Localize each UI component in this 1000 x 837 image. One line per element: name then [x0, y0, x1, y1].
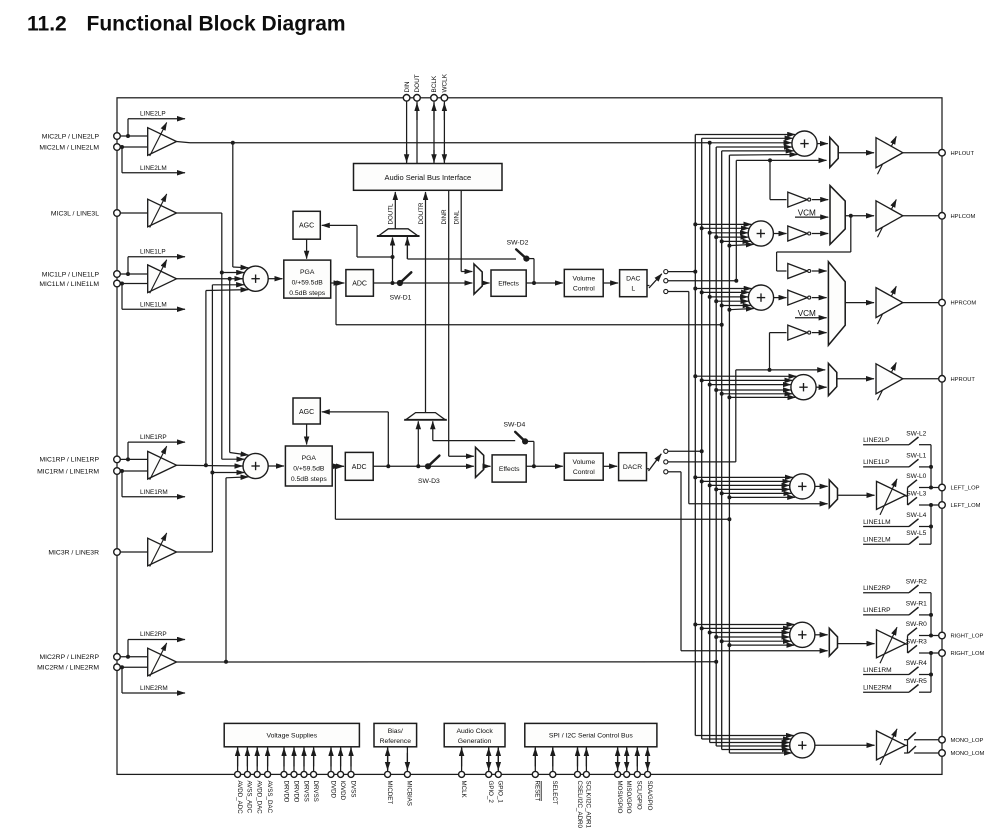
svg-text:CSEL/I2C_ADR0: CSEL/I2C_ADR0	[576, 781, 583, 829]
svg-text:SW-L2: SW-L2	[906, 430, 926, 437]
svg-text:PGA: PGA	[302, 455, 317, 462]
svg-text:SW-R3: SW-R3	[906, 639, 927, 646]
svg-text:DRVSS: DRVSS	[312, 781, 319, 802]
svg-text:Voltage Supplies: Voltage Supplies	[266, 733, 317, 740]
svg-text:Bias/: Bias/	[388, 728, 403, 735]
svg-text:LINE1RM: LINE1RM	[863, 667, 892, 674]
svg-text:HPROUT: HPROUT	[951, 377, 976, 383]
svg-text:SELECT: SELECT	[551, 781, 558, 805]
svg-text:MIC3R / LINE3R: MIC3R / LINE3R	[48, 549, 99, 556]
svg-text:HPLCOM: HPLCOM	[951, 214, 976, 220]
svg-text:AVDD_ADC: AVDD_ADC	[236, 781, 243, 815]
svg-text:Audio Serial Bus Interface: Audio Serial Bus Interface	[384, 173, 471, 182]
svg-text:Generation: Generation	[458, 738, 492, 745]
svg-text:DOUTL: DOUTL	[388, 203, 395, 225]
svg-text:SPI / I2C Serial Control Bus: SPI / I2C Serial Control Bus	[549, 733, 633, 740]
svg-text:RIGHT_LOM: RIGHT_LOM	[951, 651, 985, 657]
svg-text:MCLK: MCLK	[460, 781, 467, 799]
svg-text:IOVDD: IOVDD	[339, 781, 346, 801]
svg-text:LINE1LP: LINE1LP	[863, 459, 890, 466]
svg-text:LINE2LM: LINE2LM	[863, 537, 891, 544]
svg-text:GPIO_1: GPIO_1	[497, 781, 504, 804]
svg-text:SW-L4: SW-L4	[906, 512, 926, 519]
svg-text:DIN: DIN	[404, 81, 411, 92]
svg-text:AVSS_DAC: AVSS_DAC	[266, 781, 273, 814]
svg-text:HPRCOM: HPRCOM	[951, 301, 977, 307]
svg-text:LINE2RP: LINE2RP	[863, 585, 891, 592]
svg-text:MIC2RM / LINE2RM: MIC2RM / LINE2RM	[37, 665, 99, 672]
svg-text:LINE1LM: LINE1LM	[140, 301, 167, 308]
svg-text:MIC2RP / LINE2RP: MIC2RP / LINE2RP	[39, 654, 99, 661]
svg-text:LINE1RM: LINE1RM	[140, 489, 168, 496]
svg-text:VCM: VCM	[798, 309, 816, 318]
svg-text:AVDD_DAC: AVDD_DAC	[256, 781, 263, 815]
svg-text:SCL/GPIO: SCL/GPIO	[636, 781, 643, 810]
svg-text:Volume: Volume	[572, 275, 595, 282]
svg-text:0.5dB steps: 0.5dB steps	[289, 290, 325, 297]
svg-text:VCM: VCM	[798, 208, 816, 217]
svg-text:WCLK: WCLK	[442, 73, 449, 92]
svg-text:SW-D2: SW-D2	[507, 239, 529, 246]
svg-text:0/+59.5dB: 0/+59.5dB	[292, 280, 324, 287]
svg-text:SW-D3: SW-D3	[418, 478, 440, 485]
svg-text:DRVDD: DRVDD	[282, 781, 289, 803]
svg-text:LINE2LP: LINE2LP	[140, 110, 166, 117]
svg-text:SW-L3: SW-L3	[906, 491, 926, 498]
svg-text:0/+59.5dB: 0/+59.5dB	[293, 466, 325, 473]
svg-text:DOUTR: DOUTR	[418, 202, 425, 225]
svg-text:Effects: Effects	[499, 466, 520, 473]
svg-text:ADC: ADC	[352, 281, 367, 288]
svg-text:DVSS: DVSS	[349, 781, 356, 798]
svg-text:SW-R0: SW-R0	[906, 621, 927, 628]
svg-text:SW-D1: SW-D1	[390, 295, 412, 302]
svg-text:Control: Control	[573, 285, 595, 292]
svg-text:SW-R5: SW-R5	[906, 678, 927, 685]
svg-text:AGC: AGC	[299, 409, 314, 416]
svg-text:BCLK: BCLK	[431, 75, 438, 92]
svg-text:Control: Control	[573, 469, 595, 476]
svg-text:Effects: Effects	[498, 281, 519, 288]
svg-text:MIC2LP / LINE2LP: MIC2LP / LINE2LP	[42, 133, 100, 140]
svg-text:LINE1LM: LINE1LM	[863, 519, 891, 526]
svg-text:SW-R1: SW-R1	[906, 601, 927, 608]
svg-text:MISO/GPIO: MISO/GPIO	[625, 781, 632, 814]
svg-text:ADC: ADC	[352, 464, 367, 471]
svg-text:LINE1RP: LINE1RP	[863, 607, 891, 614]
svg-text:L: L	[631, 285, 635, 292]
svg-text:MIC1LP / LINE1LP: MIC1LP / LINE1LP	[42, 271, 100, 278]
svg-text:Functional Block Diagram: Functional Block Diagram	[87, 13, 346, 36]
svg-text:DRVDD: DRVDD	[292, 781, 299, 803]
svg-text:Volume: Volume	[572, 459, 595, 466]
svg-text:DINR: DINR	[441, 209, 448, 225]
svg-text:SW-D4: SW-D4	[504, 422, 526, 429]
svg-text:MIC1LM / LINE1LM: MIC1LM / LINE1LM	[39, 281, 99, 288]
svg-text:MIC1RM / LINE1RM: MIC1RM / LINE1RM	[37, 468, 99, 475]
svg-text:RESET: RESET	[534, 781, 541, 802]
svg-text:SW-L5: SW-L5	[906, 530, 926, 537]
svg-text:MIC3L / LINE3L: MIC3L / LINE3L	[51, 210, 99, 217]
svg-text:RIGHT_LOP: RIGHT_LOP	[951, 634, 984, 640]
svg-text:MONO_LOM: MONO_LOM	[951, 751, 985, 757]
svg-text:Audio Clock: Audio Clock	[456, 728, 493, 735]
svg-text:DVDD: DVDD	[329, 781, 336, 799]
svg-text:DRVSS: DRVSS	[302, 781, 309, 802]
svg-text:MICBIAS: MICBIAS	[406, 781, 413, 806]
svg-text:PGA: PGA	[300, 269, 315, 276]
svg-text:SCLK/I2C_ADR1: SCLK/I2C_ADR1	[585, 781, 592, 829]
svg-text:DOUT: DOUT	[414, 74, 421, 92]
svg-text:LINE1LP: LINE1LP	[140, 248, 166, 255]
svg-text:SDA/GPIO: SDA/GPIO	[646, 781, 653, 811]
svg-text:Reference: Reference	[380, 738, 412, 745]
svg-text:LEFT_LOP: LEFT_LOP	[951, 486, 980, 492]
svg-text:LINE1RP: LINE1RP	[140, 434, 167, 441]
svg-text:GPIO_2: GPIO_2	[487, 781, 494, 804]
svg-text:HPLOUT: HPLOUT	[951, 151, 975, 157]
svg-text:SW-L0: SW-L0	[906, 473, 926, 480]
svg-text:MICDET: MICDET	[386, 781, 393, 805]
svg-text:AVSS_ADC: AVSS_ADC	[246, 781, 253, 814]
svg-text:0.5dB steps: 0.5dB steps	[291, 476, 327, 483]
svg-text:11.2: 11.2	[27, 13, 67, 36]
svg-text:LINE2RP: LINE2RP	[140, 631, 167, 638]
svg-text:LINE2RM: LINE2RM	[863, 685, 892, 692]
svg-text:SW-R4: SW-R4	[906, 660, 927, 667]
svg-text:MOSI/GPIO: MOSI/GPIO	[616, 781, 623, 814]
svg-text:LEFT_LOM: LEFT_LOM	[951, 503, 981, 509]
svg-text:DAC: DAC	[626, 275, 640, 282]
svg-text:DACR: DACR	[623, 464, 642, 471]
svg-text:LINE2RM: LINE2RM	[140, 685, 168, 692]
svg-text:SW-L1: SW-L1	[906, 453, 926, 460]
svg-text:MIC1RP / LINE1RP: MIC1RP / LINE1RP	[39, 457, 99, 464]
svg-text:LINE2LM: LINE2LM	[140, 165, 167, 172]
svg-text:AGC: AGC	[299, 223, 314, 230]
svg-text:MIC2LM / LINE2LM: MIC2LM / LINE2LM	[39, 144, 99, 151]
svg-text:SW-R2: SW-R2	[906, 578, 927, 585]
svg-text:LINE2LP: LINE2LP	[863, 437, 890, 444]
svg-text:DINL: DINL	[454, 210, 461, 225]
svg-text:MONO_LOP: MONO_LOP	[951, 738, 984, 744]
